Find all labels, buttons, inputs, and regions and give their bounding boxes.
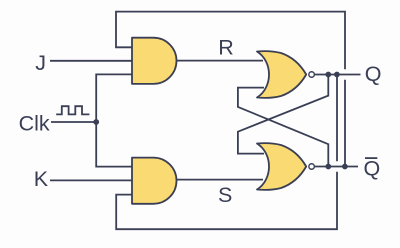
wire: Q feedback loop (bottom AND input, left vertical, bottom border, right vertical up to Q node with hop gap over Qbar line) [116, 75, 337, 230]
node: Q line junction 2 (to bottom feedback) [334, 72, 340, 78]
svg-text:K: K [34, 167, 49, 191]
clock waveform symbol [56, 106, 89, 114]
node: Clk junction [93, 119, 99, 125]
svg-text:Q: Q [365, 62, 382, 86]
wire: Qbar output [314, 166, 358, 168]
svg-text:R: R [218, 36, 234, 60]
wire: S (AND2 output to NOR2 input) [176, 179, 263, 181]
node: Qbar line junction 1 (to cross-coupling) [325, 164, 331, 170]
wire: Q output [314, 74, 361, 76]
svg-text:Clk: Clk [19, 111, 50, 135]
wire: R (AND1 output to NOR1 input) [176, 60, 263, 62]
wire: J input [50, 60, 132, 62]
wire: Clk branch to both AND gates [96, 74, 132, 166]
wire: cross-coupling Q to NOR2 upper input [238, 75, 328, 154]
node: Qbar line junction 2 (to top feedback loop) [342, 164, 348, 170]
NOR gate U4 (S input, Qbar output) [257, 143, 306, 190]
AND gate U1 (J side) [132, 38, 177, 84]
svg-text:Q: Q [364, 156, 381, 180]
inverter bubble on NOR1 output [309, 72, 315, 78]
inverter bubble on NOR2 output [309, 164, 315, 170]
svg-text:S: S [218, 183, 232, 207]
NOR gate U3 (R input, Q output) [257, 51, 306, 98]
wire: Clk input [51, 121, 96, 123]
AND gate U2 (K side) [132, 158, 177, 204]
node: Q line junction 1 (to cross-coupling) [325, 72, 331, 78]
wire: Qbar feedback loop (left vertical, top border, right vertical down to Qbar node) [116, 12, 345, 167]
svg-text:J: J [35, 51, 46, 75]
wire: cross-coupling Qbar to NOR1 lower input [238, 88, 328, 167]
overline of Qbar [365, 157, 377, 159]
wire: K input [50, 179, 132, 181]
